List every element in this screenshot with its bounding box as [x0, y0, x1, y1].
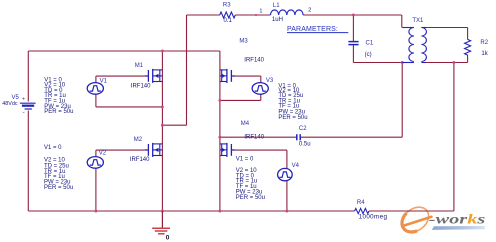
wire TX1 primary bottom drop	[401, 63, 403, 138]
label V3	[266, 78, 274, 84]
source V3 VPULSE	[252, 83, 268, 95]
wire V5 positive lead	[27, 51, 29, 102]
svg-text:48Vdc: 48Vdc	[2, 101, 18, 107]
svg-text:IRF140: IRF140	[130, 157, 150, 163]
transistor M3 IRF140	[220, 69, 235, 83]
svg-text:M2: M2	[134, 137, 143, 143]
wire V2 top stub	[95, 150, 97, 157]
value 48Vdc	[2, 101, 18, 107]
value 1000meg	[359, 213, 388, 220]
svg-text:L1: L1	[273, 3, 280, 9]
svg-text:-: -	[23, 110, 25, 116]
transformer TX1	[402, 28, 426, 63]
svg-text:M4: M4	[241, 121, 250, 127]
svg-text:TX1: TX1	[412, 18, 424, 24]
label V5	[12, 95, 20, 101]
transistor M4 IRF140	[220, 143, 235, 157]
svg-text:(c): (c)	[365, 52, 372, 58]
value IRF140 of M4	[244, 135, 264, 141]
svg-text:+: +	[22, 97, 25, 103]
transistor M1 IRF140	[145, 69, 163, 83]
label L1	[273, 3, 280, 9]
junction V4 on ground rail	[285, 210, 288, 213]
junction C1 tap on top net	[352, 14, 355, 17]
svg-text:V1: V1	[100, 78, 108, 84]
resistor R2	[465, 39, 471, 55]
wire phase node B to C2	[220, 136, 297, 138]
value IRF140 of M3	[244, 57, 264, 63]
wire V1 gate wire	[96, 75, 148, 77]
value IRF140 of M2	[130, 157, 150, 163]
wire TX1 secondary bottom to R2	[426, 62, 468, 64]
svg-text:V2: V2	[99, 151, 107, 157]
wire phase node A link	[162, 124, 186, 126]
svg-text:2: 2	[308, 8, 311, 14]
wire V4 top stub	[286, 150, 288, 169]
value 0.1	[224, 18, 233, 24]
svg-text:1: 1	[259, 8, 262, 14]
wire V5 negative lead	[27, 111, 29, 212]
wire V3 return	[220, 99, 261, 101]
svg-text:M3: M3	[239, 39, 248, 45]
svg-text:V4: V4	[292, 163, 300, 169]
label V4	[292, 163, 300, 169]
wire C1 bottom stub	[352, 45, 354, 63]
svg-text:M1: M1	[135, 63, 144, 69]
capacitor C2	[297, 134, 300, 140]
svg-text:PARAMETERS:: PARAMETERS:	[287, 26, 338, 33]
wire TX1 secondary top to R2	[426, 27, 468, 29]
label M1	[135, 63, 144, 69]
wire C2 to TX1 primary bottom	[301, 136, 402, 138]
svg-text:PER = 50u: PER = 50u	[44, 109, 73, 115]
resistor R4	[355, 208, 369, 213]
source V4 VPULSE	[278, 168, 293, 180]
wire top net R3 left segment	[187, 14, 220, 16]
wire V1 return	[96, 106, 162, 108]
logo e-works wordmark	[429, 212, 486, 227]
junction C2 tap on right leg	[218, 136, 221, 139]
label R4	[357, 200, 365, 206]
resistor R3	[220, 12, 236, 18]
svg-text:V1 = 0: V1 = 0	[236, 156, 254, 162]
svg-text:0.5u: 0.5u	[299, 142, 311, 148]
wire C1 to primary bottom	[353, 62, 402, 64]
wire V3 gate wire	[231, 75, 260, 77]
wire V4 gate wire	[231, 149, 287, 151]
pin 1 of L1	[259, 8, 262, 14]
source V2 VPULSE	[87, 157, 103, 169]
junction V3 return on right leg	[218, 99, 221, 102]
ground	[152, 211, 170, 234]
wire R2 bottom stub	[467, 55, 469, 63]
label TX1	[412, 18, 424, 24]
label M4	[241, 121, 250, 127]
node V3 parameter list	[278, 83, 307, 121]
inductor L1	[271, 10, 304, 15]
wire V1 bottom stub	[95, 94, 97, 107]
svg-text:R3: R3	[223, 3, 231, 9]
junction phase A on left leg	[161, 124, 164, 127]
svg-text:IRF140: IRF140	[244, 57, 264, 63]
svg-text:1k: 1k	[481, 51, 488, 57]
junction primary bottom	[401, 61, 404, 64]
text PARAMETERS:	[287, 26, 348, 33]
svg-text:C2: C2	[299, 126, 307, 132]
node V4 parameter list	[236, 156, 265, 200]
svg-text:PER = 50u: PER = 50u	[44, 185, 73, 191]
value 1uH	[272, 17, 283, 23]
value 0.5u	[299, 142, 311, 148]
label C2	[299, 126, 307, 132]
label R3	[223, 3, 231, 9]
svg-text:1uH: 1uH	[272, 17, 283, 23]
wire V1 top stub	[95, 76, 97, 83]
wire V3 bottom stub	[260, 94, 262, 101]
wire right leg M3/M4 drain-source rail	[219, 51, 221, 211]
svg-text:0: 0	[166, 234, 170, 241]
label V2	[99, 151, 107, 157]
svg-text:0.1: 0.1	[224, 18, 233, 24]
svg-text:IRF140: IRF140	[131, 84, 151, 90]
svg-text:1000meg: 1000meg	[359, 213, 388, 220]
svg-text:PER = 50u: PER = 50u	[236, 195, 265, 201]
wire left leg M1/M2 drain-source rail	[161, 51, 163, 211]
battery V5 48Vdc	[20, 97, 36, 116]
capacitor C1	[348, 42, 358, 45]
junction V1 return on left leg	[161, 105, 164, 108]
pin 2 of L1	[308, 8, 311, 14]
svg-text:V3: V3	[266, 78, 274, 84]
label C1	[366, 41, 374, 47]
node V1 parameter list	[44, 77, 73, 115]
junction ground symbol on rail	[161, 210, 164, 213]
label M2	[134, 137, 143, 143]
wire ground rail left	[28, 210, 354, 212]
value IRF140 of M1	[131, 84, 151, 90]
source V1 VPULSE	[87, 83, 103, 95]
label R2	[480, 40, 488, 46]
junction V2 on ground rail	[94, 210, 97, 213]
node tick at L1 pin 1	[255, 14, 257, 16]
wire V3 top stub	[260, 76, 262, 83]
label M3	[239, 39, 248, 45]
wire C1 top stub	[352, 15, 354, 41]
wire V2 bottom lead	[95, 168, 97, 211]
wire V+ rail top	[28, 50, 220, 52]
wire top net L1-TX1 segment	[303, 14, 402, 16]
svg-text:R2: R2	[480, 40, 488, 46]
logo e-works swoosh e	[397, 202, 433, 237]
logo e-works blue underline	[432, 226, 485, 230]
svg-text:-works: -works	[429, 212, 486, 227]
transistor M2 IRF140	[145, 143, 163, 157]
label 0 of ground	[166, 234, 170, 241]
label V1	[100, 78, 108, 84]
node V2 parameter list	[44, 145, 73, 191]
wire phase node A feed to R3	[186, 15, 188, 125]
svg-text:C1: C1	[366, 41, 374, 47]
junction top rail / M1 drain	[161, 50, 164, 53]
junction secondary bottom	[452, 61, 455, 64]
svg-text:IRF140: IRF140	[244, 135, 264, 141]
svg-text:PER = 50u: PER = 50u	[278, 115, 307, 121]
wire secondary return drop	[453, 63, 455, 212]
svg-text:V1 = 0: V1 = 0	[44, 145, 62, 151]
wire V4 bottom lead	[286, 180, 288, 211]
junction M4 leg on ground rail	[218, 210, 221, 213]
svg-text:R4: R4	[357, 200, 365, 206]
value (c)	[365, 52, 372, 58]
wire R2 top stub	[467, 28, 469, 40]
wire V2 gate wire	[96, 149, 148, 151]
value 1k	[481, 51, 488, 57]
wire TX1 primary top feed	[401, 15, 403, 28]
wire top net R3-L1 segment	[235, 14, 270, 16]
wire ground rail right	[369, 210, 454, 212]
